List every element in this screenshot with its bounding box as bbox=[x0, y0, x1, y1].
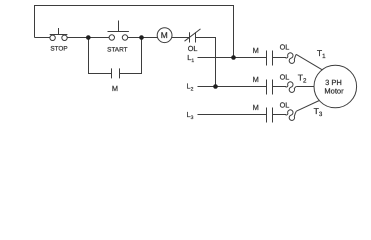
svg-text:M: M bbox=[253, 103, 259, 112]
wire top rail bbox=[35, 6, 234, 58]
wire OL-to-L2 bbox=[196, 38, 216, 87]
node after START bbox=[139, 35, 144, 40]
wire to heater 3 bbox=[273, 114, 287, 116]
wire L2 bbox=[198, 86, 267, 88]
svg-text:Motor: Motor bbox=[324, 87, 344, 96]
contact M line 2 bbox=[267, 80, 273, 95]
wire stop-to-start bbox=[67, 37, 109, 39]
svg-text:T3: T3 bbox=[314, 106, 323, 118]
svg-text:T1: T1 bbox=[317, 48, 326, 60]
motor 3 PH bbox=[314, 65, 357, 108]
wire stop lead-in bbox=[35, 37, 51, 39]
svg-text:M: M bbox=[112, 84, 118, 93]
overload heater 3 bbox=[286, 110, 297, 121]
svg-text:L1: L1 bbox=[187, 53, 194, 64]
pushbutton STOP bbox=[50, 28, 68, 41]
svg-text:M: M bbox=[253, 46, 259, 55]
svg-text:START: START bbox=[107, 47, 127, 54]
svg-text:OL: OL bbox=[280, 72, 290, 81]
svg-text:T2: T2 bbox=[298, 72, 307, 84]
contact M holding branch bbox=[89, 38, 142, 79]
overload heater 1 bbox=[286, 53, 297, 64]
wire T2 to motor bbox=[296, 86, 314, 88]
svg-text:L2: L2 bbox=[187, 81, 194, 92]
contact M line 3 bbox=[267, 108, 273, 123]
wire T1 to motor bbox=[296, 54, 322, 69]
wire L1 bbox=[198, 57, 267, 59]
wire start-to-coil bbox=[128, 37, 158, 39]
svg-text:M: M bbox=[253, 75, 259, 84]
wire T3 to motor bbox=[296, 101, 319, 112]
node after STOP bbox=[86, 35, 91, 40]
node on L1 bbox=[231, 55, 236, 60]
pushbutton START bbox=[108, 21, 129, 41]
svg-text:STOP: STOP bbox=[50, 46, 67, 53]
wire to heater 2 bbox=[273, 86, 287, 88]
svg-text:M: M bbox=[161, 30, 168, 40]
svg-text:OL: OL bbox=[280, 43, 290, 52]
coil M bbox=[157, 28, 172, 43]
wire coil-to-OL bbox=[172, 37, 190, 39]
node on L2 bbox=[213, 84, 218, 89]
wire to heater 1 bbox=[273, 57, 287, 59]
contact M line 1 bbox=[267, 51, 273, 66]
svg-text:OL: OL bbox=[280, 100, 290, 109]
svg-text:L3: L3 bbox=[187, 110, 194, 121]
wire L3 bbox=[198, 114, 267, 116]
contact OL normally-closed bbox=[185, 29, 201, 43]
svg-text:OL: OL bbox=[188, 44, 198, 53]
svg-text:3 PH: 3 PH bbox=[325, 78, 342, 87]
overload heater 2 bbox=[286, 82, 297, 93]
